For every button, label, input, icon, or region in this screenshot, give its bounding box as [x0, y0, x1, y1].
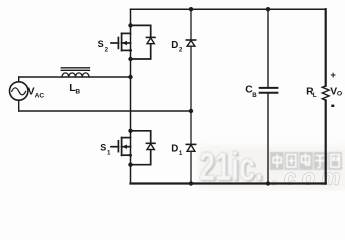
- svg-text:+: +: [330, 70, 336, 81]
- top rail: [131, 8, 326, 10]
- inductor LB humps: [62, 73, 89, 77]
- S1 body arrow head: [122, 145, 127, 149]
- svg-text:2: 2: [179, 46, 183, 53]
- svg-text:V: V: [28, 86, 35, 98]
- S-leg wire x=130.5: [130, 9, 132, 183]
- svg-text:D: D: [171, 40, 178, 51]
- svg-text:1: 1: [179, 150, 183, 157]
- 中: [273, 154, 281, 168]
- diode D1 triangle: [187, 145, 195, 151]
- resistor RL zigzag: [322, 86, 329, 101]
- mid rail (inductor row): [19, 76, 131, 78]
- R-leg wire x=325.7: [325, 9, 327, 86]
- svg-text:S: S: [98, 39, 104, 49]
- inductor LB core lines: [61, 67, 89, 69]
- node: S2 drain / loop top: [128, 23, 132, 27]
- svg-text:S: S: [100, 143, 106, 153]
- svg-text:B: B: [75, 89, 80, 96]
- minus dot: [331, 105, 334, 107]
- svg-text:AC: AC: [35, 93, 45, 100]
- node: C-leg top: [266, 7, 270, 11]
- D-leg wire x=191: [190, 9, 192, 40]
- C-leg wire x=268: [267, 9, 269, 88]
- diode D2 bar: [186, 39, 195, 41]
- gate bar: [117, 141, 119, 152]
- gate lead: [111, 146, 118, 148]
- S1 body-diode loop: [131, 131, 151, 165]
- 电: [302, 154, 310, 166]
- AC sine symbol: [12, 88, 26, 95]
- node: AC to D-leg: [189, 109, 193, 113]
- arrow stub: [122, 146, 131, 148]
- 网: [331, 155, 340, 168]
- watermark 21ic: [199, 145, 265, 191]
- source stub: [122, 49, 131, 51]
- node: D-leg bottom: [189, 181, 193, 185]
- channel bar: [121, 138, 123, 156]
- bottom rail: [131, 182, 326, 184]
- 子: [315, 156, 325, 168]
- svg-text:1: 1: [107, 149, 111, 156]
- node: S1 source / loop bottom: [128, 163, 132, 167]
- gate bar: [117, 38, 119, 49]
- S2 body arrow head: [122, 41, 127, 45]
- node: S1 drain / loop top: [128, 129, 132, 133]
- 国: [287, 155, 296, 168]
- gate lead: [111, 42, 118, 44]
- capacitor CB plates: [260, 87, 278, 89]
- S1 body diode bar: [146, 142, 155, 144]
- node: D-leg top: [189, 7, 193, 11]
- drain stub: [122, 137, 131, 139]
- node: S1 source stub: [129, 154, 132, 157]
- node: S2 source stub: [129, 49, 132, 52]
- node: S2 source / loop bottom: [128, 57, 132, 61]
- svg-text:2: 2: [105, 46, 109, 53]
- AC source circle: [10, 82, 28, 100]
- S1 body diode triangle: [147, 144, 154, 150]
- node: C-leg bottom: [266, 181, 270, 185]
- AC source leads: [18, 77, 20, 82]
- mosfet S2: [111, 33, 131, 50]
- S2 body diode triangle: [147, 38, 154, 44]
- svg-text:O: O: [337, 91, 342, 98]
- source stub: [122, 154, 131, 156]
- svg-text:D: D: [171, 143, 178, 154]
- svg-text:L: L: [313, 92, 317, 99]
- svg-text:B: B: [252, 92, 257, 99]
- channel bar: [121, 33, 123, 50]
- diode D2 triangle: [187, 41, 195, 47]
- mosfet S1: [111, 138, 131, 156]
- drain stub: [122, 32, 131, 34]
- AC low rail: [19, 110, 191, 112]
- diode D1 bar: [186, 143, 195, 145]
- node: inductor to S-leg: [128, 75, 132, 79]
- arrow stub: [122, 42, 131, 44]
- S2 body-diode loop: [131, 25, 151, 59]
- S2 body diode bar: [146, 36, 155, 38]
